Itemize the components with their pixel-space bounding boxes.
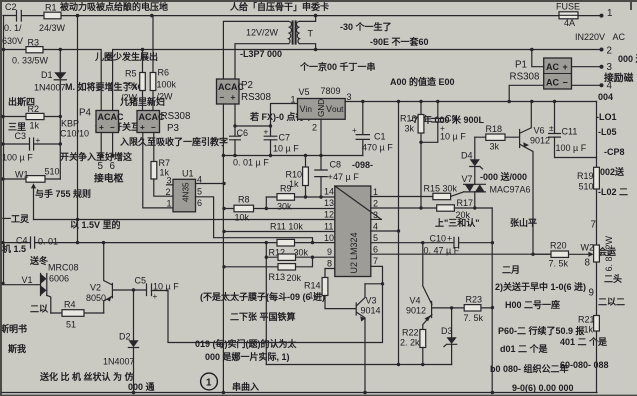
svg-text:10: 10 [324,233,334,243]
svg-text:P60-二 行续了50.9 报: P60-二 行续了50.9 报 [498,325,585,336]
svg-text:R6: R6 [158,68,170,78]
svg-text:12V/2W: 12V/2W [246,28,279,38]
svg-text:FUSE: FUSE [556,2,580,12]
svg-text:R7: R7 [159,158,171,168]
svg-text:20k: 20k [287,273,302,283]
svg-text:斯明书: 斯明书 [0,323,27,334]
svg-text:送化 比 机 丝状认 为 仿: 送化 比 机 丝状认 为 仿 [39,371,134,382]
svg-text:R16: R16 [400,114,417,124]
wire: U2 pin 4 to +9V column [371,102,400,367]
svg-text:+: + [99,123,104,132]
svg-text:−: − [563,78,568,88]
resistor R7 1k [151,158,173,196]
svg-text:串曲入: 串曲入 [232,381,259,392]
capacitor C5 10uF [135,276,180,302]
svg-text:C1: C1 [374,132,386,142]
svg-text:R22: R22 [402,328,419,338]
wire: column x=77.5 from rail1 down to C4 line [76,16,79,245]
svg-text:人给「自压骨干」申委卡: 人给「自压骨干」申委卡 [229,1,329,12]
svg-text:100k: 100k [157,80,177,90]
svg-text:二下张 平国铁算: 二下张 平国铁算 [230,311,296,322]
svg-text:D1: D1 [41,70,53,80]
resistor R22 2.2k [400,328,426,367]
svg-text:9014: 9014 [361,306,381,316]
resistor R17 20k [437,198,493,220]
svg-text:8: 8 [585,258,591,269]
svg-text:二以二: 二以二 [598,297,625,307]
svg-text:0. 1/: 0. 1/ [4,23,22,33]
svg-text:R19: R19 [577,171,594,181]
svg-text:3k: 3k [490,142,500,152]
svg-text:V7: V7 [462,174,473,184]
svg-text:C5: C5 [135,276,147,286]
svg-text:接电枢: 接电枢 [94,172,124,185]
svg-text:RS308: RS308 [241,92,272,103]
svg-text:斯我: 斯我 [8,343,26,354]
svg-text:1k: 1k [30,121,40,131]
svg-text:1k: 1k [584,325,594,335]
capacitor C9 10uF [421,102,466,143]
terminal 3 [600,62,613,73]
svg-text:7: 7 [591,220,596,231]
regulator V5 7809 [291,86,352,133]
svg-text:10k: 10k [235,213,250,223]
svg-text:-L3P7 000: -L3P7 000 [240,49,282,59]
svg-text:9-0(6) 0.00 000: 9-0(6) 0.00 000 [512,383,574,393]
capacitor C3 100uF [2,131,41,163]
svg-text:14: 14 [324,187,334,197]
svg-text:12: 12 [324,210,334,220]
svg-text:二以: 二以 [30,304,48,314]
triac V7 MAC97A6 [451,174,531,208]
resistor R15 30k [424,184,458,200]
svg-text:1: 1 [607,8,612,19]
wire: P2 left pin down (common column x=223.4, full drop to bottom bus) [222,104,226,393]
svg-text:IN220V AC: IN220V AC [575,32,626,42]
zener D4 [461,137,483,184]
svg-text:R23: R23 [466,295,483,305]
wire: U2 pin7 down, across to C5 [168,266,383,342]
wire: R2 line y=116.5 [3,116,60,118]
svg-text:3: 3 [607,62,613,73]
svg-text:V6: V6 [534,126,545,136]
svg-text:11: 11 [324,222,333,232]
wire: P1 right pins to terminals 3 and 4 [572,67,602,86]
resistor (pin 9 row body) [278,254,296,260]
svg-text:+: + [231,93,236,102]
module P3 RS308 (ACAC solid state relay) [137,111,191,135]
svg-text:3: 3 [167,176,172,186]
capacitor C11 100uF [549,102,597,158]
svg-text:R3: R3 [28,38,40,48]
wire: C4 / pin-10 line y=242.6 [3,241,335,244]
svg-text:0. 01: 0. 01 [38,237,58,247]
capacitor C4 0.01 [16,236,58,249]
svg-text:60-080- 088: 60-080- 088 [560,360,609,370]
svg-text:AC: AC [546,62,559,72]
svg-text:−: − [110,123,115,132]
svg-text:510: 510 [45,167,60,177]
svg-text:b0 080- 组织公二年: b0 080- 组织公二年 [490,363,569,374]
svg-text:C11: C11 [562,127,578,137]
svg-text:R10: R10 [286,170,303,180]
svg-text:−: − [151,123,156,132]
wire: U2 pin 6 long line to R20 [371,253,551,256]
wire: P1 bottom-left pin to +9V rail [509,85,544,101]
wire: U2 pin 8 corner to R14 [325,269,335,278]
capacitor C8 47uF [315,160,359,183]
resistor R10 1k [286,156,309,199]
svg-text:R1: R1 [45,3,57,13]
thyristor V1 MRC08/6006 [3,263,79,314]
capacitor C7 10uF [264,128,300,154]
svg-text:R13: R13 [269,272,286,282]
svg-text:GND: GND [317,99,326,117]
svg-text:C10: C10 [430,234,447,244]
svg-text:-L05: -L05 [598,127,617,137]
optocoupler U1 4N35 [166,169,203,212]
svg-text:C9: C9 [445,114,457,124]
wire: AC rail 1 (top, y=15.6) [3,14,601,18]
svg-text:1: 1 [206,378,212,389]
svg-text:13: 13 [324,198,334,208]
svg-text:2)关送于早中 1-0(6 进): 2)关送于早中 1-0(6 进) [495,281,586,292]
wire: W1 line y=179 [3,178,60,180]
svg-text:R8: R8 [238,195,250,205]
wire: U1 pin5 down and right to pin-10 node [196,197,313,243]
svg-text:000 送: 000 送 [618,53,637,64]
svg-text:6: 6 [110,161,116,172]
svg-text:1N4007: 1N4007 [103,357,135,367]
diode D1 1N4007 (vertical, pointing down) [34,70,66,93]
wire: +9V lower rail y=365 [266,364,451,366]
svg-text:10 µ F: 10 µ F [153,282,179,292]
transistor V4 9012 [406,243,453,330]
page border frame (decorative scan edges) [0,0,637,2]
svg-text:C10/10: C10/10 [60,129,89,139]
op-amp U2 LM324 [335,186,382,277]
resistor R21 1k [578,315,599,335]
module P2 RS308 [217,79,272,104]
svg-text:004: 004 [598,92,613,102]
svg-text:470 µ F: 470 µ F [362,143,393,153]
wire: AC rail 2 (y=50) from P4 right pin to terminal 2 [113,48,601,111]
wire: C3 line y=144 [3,143,60,145]
svg-text:LM324: LM324 [349,232,359,260]
svg-text:R18: R18 [486,124,503,134]
svg-text:D4: D4 [461,151,473,161]
wire: 0V bus y=155.5 [223,154,362,157]
svg-text:7. 5k: 7. 5k [549,259,569,269]
svg-text:R21: R21 [578,315,595,325]
transformer T 12V/2W [223,16,315,79]
wire: 7809 GND column with C8 [319,119,322,198]
svg-text:+: + [264,128,269,137]
svg-text:开关争入至好增这: 开关争入至好增这 [60,151,132,162]
svg-text:V4: V4 [410,296,421,306]
wire: U2 pin 5 to C10 [371,241,493,244]
wire: U2 pin 2 line to R17 [371,206,437,209]
svg-text:510: 510 [579,182,594,192]
svg-text:630V: 630V [2,36,23,46]
svg-text:二头: 二头 [604,273,622,284]
potentiometer W2 6.8k/2W [569,235,615,271]
svg-text:MRC08: MRC08 [48,263,79,273]
fuse FUSE 4A [556,2,580,29]
svg-text:8: 8 [327,259,332,269]
resistor R18 3k [475,124,520,152]
svg-text:C4: C4 [16,236,28,246]
svg-text:AC: AC [546,78,559,88]
resistor R3 [12,38,49,66]
svg-text:39k: 39k [123,81,138,91]
wire: pin 14 line with R9 [265,197,335,210]
svg-text:1: 1 [167,199,172,209]
resistor R1 [39,3,66,34]
resistor R4 51 [51,300,104,330]
terminal 2 [600,46,612,57]
wire: U1 pin4 to common column [196,182,226,185]
svg-text:A00 的值造 E00: A00 的值造 E00 [390,76,455,87]
wire: P1 top-left pin to rail2 [532,50,544,67]
svg-text:C2: C2 [5,2,17,12]
resistor R13 20k row [224,257,313,283]
svg-text:/2W: /2W [157,92,174,102]
svg-text:V5: V5 [299,87,310,97]
bottom scan border [0,395,637,396]
svg-text:-30 个一生了: -30 个一生了 [340,21,392,32]
svg-text:5: 5 [197,187,202,197]
svg-text:51: 51 [66,320,76,330]
module P4 RS308 (ACAC solid state relay) [60,108,124,139]
svg-text:T: T [308,29,314,39]
svg-text:入限久至吸收了一座引教字: 入限久至吸收了一座引教字 [119,136,228,147]
resistor R6 100k/2W [150,16,176,111]
svg-text:30k: 30k [277,202,292,212]
svg-text:二月: 二月 [502,265,520,275]
svg-text:24/3W: 24/3W [39,23,66,33]
svg-text:一工灵: 一工灵 [2,214,30,224]
svg-text:/2W: /2W [121,93,138,103]
svg-text:R11 10k: R11 10k [270,222,303,232]
svg-text:Vout: Vout [326,104,344,114]
svg-text:(不是太太子膜子(每斗-09 (6 进): (不是太太子膜子(每斗-09 (6 进) [200,291,325,302]
resistor R20 7.5k [533,241,569,269]
svg-text:10 µ F: 10 µ F [440,132,466,142]
svg-text:019 (每)实门(题)的认为太: 019 (每)实门(题)的认为太 [195,338,298,349]
svg-text:9012: 9012 [530,136,550,146]
svg-text:+: + [352,126,357,135]
svg-text:P4: P4 [79,108,92,119]
svg-text:P3: P3 [167,123,180,134]
terminal 1 [600,8,613,19]
resistor R19 510 [577,167,599,191]
svg-text:9: 9 [589,288,594,299]
svg-text:1: 1 [291,95,296,105]
svg-text:-90E 不一套60: -90E 不一套60 [370,36,429,47]
svg-text:接励磁: 接励磁 [604,71,634,84]
wire: U2 pin 1 output to R15 [371,196,433,198]
potentiometer W1 510 [15,167,60,220]
svg-text:MAC97A6: MAC97A6 [490,185,531,195]
svg-text:儿圈少发生展出: 儿圈少发生展出 [94,51,158,62]
svg-text:2: 2 [166,187,171,197]
svg-text:6006: 6006 [49,274,69,284]
wire: wiper / pin-12 line y=220 to U2 pin 12 [34,218,335,221]
svg-text:±: ± [549,124,554,133]
svg-text:3: 3 [373,210,378,220]
svg-text:W2: W2 [581,243,595,253]
svg-text:10 µ F: 10 µ F [273,144,299,154]
svg-text:R4: R4 [64,300,76,310]
svg-text:7: 7 [373,256,378,266]
transistor V2 8050 [86,243,146,313]
svg-text:+: + [563,62,568,72]
resistor R12 30k (pin 10 line) [269,239,309,257]
svg-text:C6: C6 [237,128,249,138]
svg-text:D2: D2 [119,332,131,342]
svg-text:002送: 002送 [600,166,625,177]
svg-text:R9: R9 [280,184,292,194]
svg-text:W1: W1 [15,170,29,180]
svg-text:C8: C8 [330,160,342,170]
svg-text:5: 5 [98,161,104,172]
wire: bottom bus y=393 [2,391,597,395]
svg-text:R2: R2 [28,104,40,114]
svg-text:+: + [36,136,41,145]
transistor V6 9012 [520,102,550,255]
svg-text:4: 4 [373,222,378,232]
wire: right column from +9V rail corner down [596,102,598,393]
svg-text:ACAC: ACAC [98,112,124,122]
svg-text:H00 二号一座: H00 二号一座 [505,299,560,310]
svg-text:U2: U2 [349,262,359,274]
wire: U2 pin 3 stub [371,218,382,220]
svg-text:0. 33/5W: 0. 33/5W [12,56,49,66]
svg-text:2. 2k: 2. 2k [400,338,420,348]
svg-text:20k: 20k [456,210,471,220]
wire: pin 13 line with R8 [224,208,335,210]
resistor R9 30k [277,184,295,212]
svg-text:7809: 7809 [321,86,341,96]
svg-text:Vin: Vin [300,104,313,114]
svg-text:V2: V2 [90,283,101,293]
svg-text:000 通: 000 通 [128,381,155,392]
svg-text:1: 1 [373,187,378,197]
svg-text:RS308: RS308 [510,72,541,83]
wire: left column x=3 [1,16,5,285]
resistor R23 7.5k [452,295,493,324]
wire: P4 pins down to terminals 5 6 [99,133,114,158]
svg-text:D3: D3 [441,326,453,336]
transistor V3 9014 [356,284,380,395]
wire: tap column x=266.3 down from pin10 node [265,243,268,365]
svg-text:0. 01 µ F: 0. 01 µ F [233,158,269,168]
svg-text:V1: V1 [22,275,33,285]
svg-text:100 µ F: 100 µ F [556,143,587,153]
wire: +9V rail y=101.5 from 7809 pin3 [345,100,596,103]
resistor R2 1k [26,104,44,131]
svg-text:-LO1: -LO1 [596,112,617,122]
svg-text:8050: 8050 [86,293,106,303]
zener D3 [441,308,457,365]
resistor R5 39k/2W [121,50,145,111]
svg-text:-L02 二: -L02 二 [598,187,628,197]
wire: R17 corner column x=492.2 down to bottom bus [491,208,495,394]
svg-text:RS308: RS308 [161,111,192,122]
svg-text:-CP8: -CP8 [604,147,625,157]
wire: P3 left pin to U1 pin1 [143,133,173,208]
terminal 4 [600,81,613,92]
module P1 RS308 [510,58,572,89]
svg-text:个一京00 千丁一串: 个一京00 千丁一串 [299,61,376,72]
svg-text:P1: P1 [515,60,527,71]
svg-text:3k: 3k [405,124,415,134]
wire: pin 9 line with 30k body [266,256,335,259]
svg-text:P2: P2 [241,80,253,91]
capacitor C6 0.01uF [230,128,270,168]
svg-text:4N35: 4N35 [182,182,191,202]
svg-text:2: 2 [607,46,612,57]
svg-text:C3: C3 [15,131,27,141]
svg-text:R17: R17 [457,198,474,208]
figure number ① [201,373,218,390]
svg-text:送冬: 送冬 [29,255,49,266]
svg-text:+: + [447,234,452,244]
svg-text:R15 30k: R15 30k [424,184,458,194]
wire: V3 collector to pin7 column [365,282,384,285]
capacitor C10 0.47uF [424,234,460,256]
svg-text:被动力吸被点给酿的电压地: 被动力吸被点给酿的电压地 [60,1,168,12]
svg-text:401 二 个是: 401 二 个是 [560,336,608,347]
svg-text:4A: 4A [564,18,575,28]
svg-text:-000 送/000: -000 送/000 [480,171,527,182]
diode D2 1N4007 (vertical) [103,290,139,393]
svg-text:R5: R5 [125,69,137,79]
svg-text:6: 6 [373,245,378,255]
svg-text:47 µ F: 47 µ F [333,172,359,182]
wire: R16/C9 node down to pin2 line [420,142,422,208]
svg-text:与手 755 规则: 与手 755 规则 [35,188,91,199]
svg-text:R20: R20 [550,241,567,251]
svg-text:V3: V3 [366,296,377,306]
svg-text:9012: 9012 [406,306,426,316]
svg-text:1k: 1k [309,291,319,301]
capacitor C2 [2,2,23,46]
svg-text:6: 6 [197,198,202,208]
wire: P2 right pin down to C6 node [233,104,297,156]
svg-text:KBP: KBP [61,119,79,129]
svg-text:000 是娜一片实际, 1): 000 是娜一片实际, 1) [205,351,290,362]
svg-text:+: + [140,123,145,132]
svg-text:R14: R14 [304,281,321,291]
svg-text:U1: U1 [182,169,194,179]
wire: column x=60.3 (D1 branch) [59,50,61,179]
svg-text:6. 8k/2W: 6. 8k/2W [604,235,614,271]
svg-text:3: 3 [347,92,352,102]
svg-text:2: 2 [373,199,378,209]
resistor R8 10k [234,195,254,223]
svg-text:1N4007: 1N4007 [34,83,66,93]
svg-text:−: − [220,93,225,102]
svg-text:5: 5 [373,233,378,243]
capacitor C1 470uF [352,102,393,156]
svg-text:+: + [153,292,158,301]
resistor R14 1k [304,278,356,309]
svg-text:+: + [328,172,333,182]
svg-text:-098-: -098- [352,160,373,170]
wire: P3 right pin to R7 [153,133,155,162]
